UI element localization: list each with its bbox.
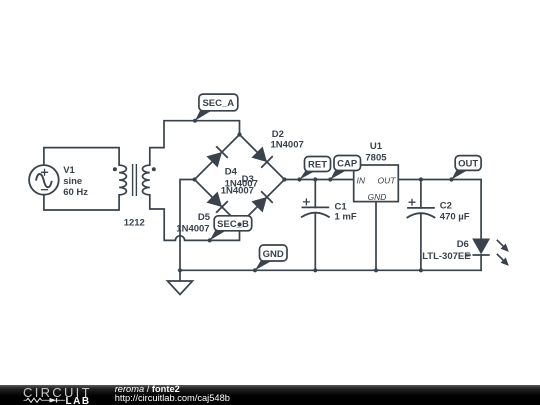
voltage source V1	[29, 165, 59, 195]
wire bottom ground rail	[180, 269, 481, 271]
junction C2 bottom	[419, 268, 423, 272]
op-amp-style regulator U1 box	[354, 165, 399, 202]
LED D6 arrows	[494, 237, 511, 268]
transformer windings	[119, 165, 150, 195]
junction CAP	[328, 177, 332, 181]
svg-text:1 mF: 1 mF	[335, 211, 357, 222]
node flag SEC_A	[195, 94, 238, 121]
junction OUT	[449, 177, 453, 181]
svg-text:60 Hz: 60 Hz	[63, 187, 88, 198]
junction C2 top	[419, 177, 423, 181]
svg-text:SEC_A: SEC_A	[202, 98, 234, 109]
node flag RET	[300, 157, 331, 180]
wire V1 top to transformer primary	[44, 148, 119, 166]
svg-text:IN: IN	[357, 175, 366, 185]
wire U1 GND pin to rail	[375, 202, 377, 271]
D3 label	[221, 174, 254, 196]
svg-text:7805: 7805	[365, 152, 387, 163]
diode D5	[206, 191, 228, 213]
svg-text:1N4007: 1N4007	[271, 139, 304, 150]
junction dots	[178, 119, 454, 273]
transformer core	[133, 164, 137, 196]
node flag CAP	[330, 156, 360, 180]
attribution url	[115, 394, 230, 404]
diode D4	[206, 146, 228, 168]
svg-text:SEC_B: SEC_B	[217, 219, 249, 230]
svg-text:U1: U1	[370, 141, 383, 152]
D6 labels	[422, 239, 470, 262]
svg-text:RET: RET	[308, 160, 327, 171]
node flag GND	[255, 245, 287, 270]
wire V1 bottom to transformer primary	[44, 195, 119, 210]
svg-text:D5: D5	[198, 212, 211, 223]
D4 label	[225, 167, 258, 190]
svg-text:D6: D6	[457, 239, 469, 250]
wire C2 branch	[420, 180, 422, 271]
ground symbol	[168, 270, 193, 294]
junction bridge bottom (drawn over flag)	[237, 222, 241, 226]
D5 label	[176, 212, 210, 234]
junction bridge right	[282, 177, 286, 181]
D2 label	[271, 129, 304, 151]
svg-text:OUT: OUT	[458, 159, 478, 170]
svg-text:470 µF: 470 µF	[440, 212, 470, 223]
U1 labels	[365, 141, 387, 164]
junction SEC_B wire	[208, 238, 212, 242]
junction RET	[297, 177, 301, 181]
svg-text:V1: V1	[63, 165, 75, 176]
svg-text:CAP: CAP	[337, 159, 358, 170]
CircuitLab logo resistor-diode glyph	[23, 397, 67, 404]
svg-text:GND: GND	[367, 192, 386, 202]
wire bridge left vertex to ground rail	[180, 180, 195, 271]
V1 labels	[63, 165, 88, 198]
junction GND flag	[253, 268, 257, 272]
node flag SEC_B	[210, 216, 252, 241]
wire C1 branch	[314, 180, 316, 271]
CircuitLab logo text LAB	[66, 397, 91, 405]
CircuitLab logo text CIRCUIT	[23, 386, 92, 399]
wire secondary bottom to bridge (net SEC_B, with hop)	[150, 195, 240, 241]
junction C1 bottom	[313, 268, 317, 272]
diode bridge wiring	[195, 135, 285, 225]
svg-text:C2: C2	[440, 201, 452, 212]
junction SEC_A	[193, 119, 197, 123]
junction ground left	[178, 268, 182, 272]
junction U1 GND bottom	[374, 268, 378, 272]
footer bar	[0, 385, 540, 405]
diode D3	[251, 191, 273, 213]
C1 labels	[335, 202, 357, 223]
svg-text:D2: D2	[272, 129, 284, 140]
node flag OUT	[452, 156, 482, 180]
svg-text:GND: GND	[263, 249, 284, 260]
diode D2	[251, 146, 273, 168]
wire LED cathode to rail	[480, 255, 482, 270]
C2 labels	[440, 201, 470, 223]
junction bridge left	[192, 177, 196, 181]
svg-text:D4: D4	[225, 167, 238, 178]
svg-text:1N4007: 1N4007	[221, 185, 254, 196]
attribution text	[115, 385, 180, 395]
capacitor C2	[407, 199, 436, 218]
svg-text:OUT: OUT	[378, 175, 397, 185]
junction C1 top	[313, 177, 317, 181]
wire secondary top to bridge (net SEC_A)	[150, 121, 240, 166]
transformer polarity dots	[113, 167, 156, 171]
svg-text:sine: sine	[63, 176, 82, 187]
capacitor C1	[301, 198, 330, 217]
wire U1 OUT rail to LED branch	[398, 180, 481, 240]
svg-text:D3: D3	[242, 174, 254, 185]
wire bridge right vertex to U1 IN	[285, 179, 354, 181]
LED D6	[466, 239, 490, 255]
junction bridge top	[237, 132, 241, 136]
svg-text:1212: 1212	[124, 218, 145, 229]
svg-text:1N4007: 1N4007	[176, 223, 209, 234]
svg-text:LTL-307EE: LTL-307EE	[422, 251, 470, 262]
